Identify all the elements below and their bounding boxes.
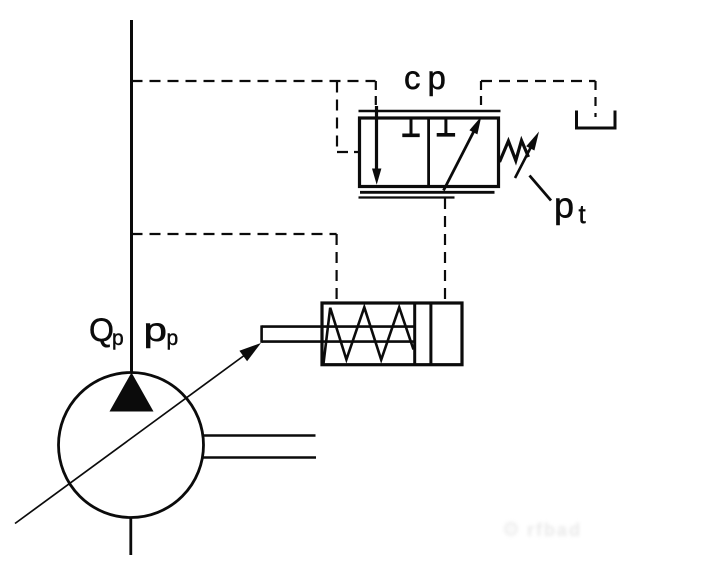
valve blocked port T2 (444, 119, 447, 134)
valve blocked port T1 (410, 119, 413, 134)
cylinder return spring (324, 307, 414, 363)
valve position divider (427, 118, 430, 187)
swashplate variable arrow (diagonal through pump) (15, 355, 246, 524)
node: pilot tap lower (dashed from pressure line to cylinder) (132, 233, 337, 235)
svg-text:t: t (579, 199, 587, 229)
piston rod top (262, 325, 415, 328)
wire: dashed line from valve to tank (481, 80, 596, 82)
wire: pump case drain port lower line (202, 456, 316, 458)
wire: dashed tick above right valve port (480, 81, 482, 112)
spring S1: compensator spring (adjustable) (500, 141, 529, 163)
wire: main pump pressure line (vertical) (130, 20, 133, 373)
valve proportional line below 1 (360, 191, 495, 194)
svg-text:p: p (167, 327, 179, 350)
pump P1 (variable displacement pump circle) (59, 373, 204, 518)
piston line 1 (413, 303, 416, 365)
piston rod end cap (260, 325, 263, 342)
svg-text:Q: Q (89, 312, 114, 348)
tank T (reservoir symbol) (577, 111, 616, 129)
wire: pump suction stub below circle (129, 518, 132, 556)
wire: pump case drain port upper line (203, 434, 316, 436)
pump outlet triangle (filled) (110, 373, 154, 412)
wire: dashed drop to valve left port (375, 81, 377, 110)
valve proportional line above (359, 110, 501, 113)
wire: dashed branch down to valve spring side (336, 82, 338, 153)
valve right position: diagonal flow arrow (444, 132, 474, 191)
valve proportional line below 2 (359, 196, 455, 198)
svg-text:p: p (144, 312, 167, 349)
svg-text:p: p (554, 185, 574, 226)
watermark (faint) (502, 517, 612, 547)
piston line 2 (429, 303, 432, 365)
adjustment arrow across spring (515, 146, 532, 178)
cylinder C1: stroking piston body (322, 303, 462, 365)
valve left position: flow arrow down (375, 106, 378, 170)
leader line to pt label (530, 176, 552, 201)
node: pilot tap upper (dashed from pressure line to valve) (132, 80, 376, 82)
piston rod bottom (262, 340, 415, 343)
wire: dashed drop to cylinder left port (336, 234, 338, 302)
svg-text:p: p (112, 327, 124, 350)
wire: dashed into valve left side (337, 151, 359, 153)
svg-text:cp: cp (404, 59, 453, 96)
wire: dashed from valve bottom to cylinder (444, 198, 446, 302)
valve V1: compensator 2-position valve body (360, 118, 499, 187)
